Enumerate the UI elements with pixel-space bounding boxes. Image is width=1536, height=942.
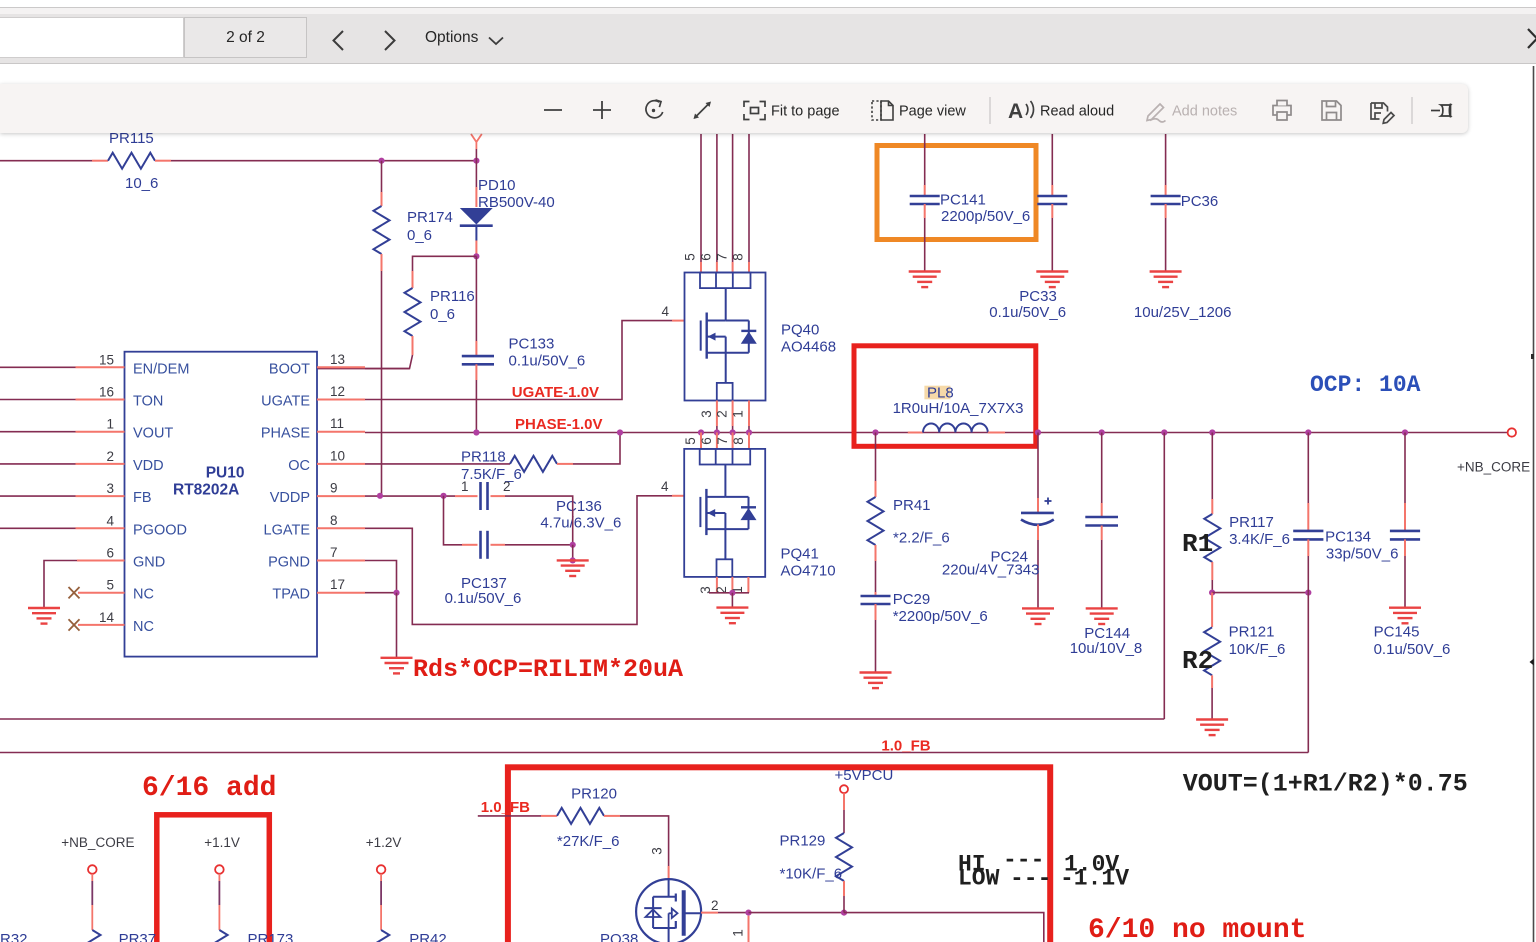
svg-text:*2200p/50V_6: *2200p/50V_6 [893, 608, 988, 625]
ground TPAD [381, 658, 413, 674]
pin stub FB [76, 495, 125, 497]
svg-text:15: 15 [99, 352, 114, 367]
ground PC144 [1086, 608, 1118, 624]
svg-text:R32: R32 [0, 931, 28, 942]
wire R1-R2 row [1212, 592, 1308, 594]
svg-text:1: 1 [731, 929, 746, 937]
svg-text:0_6: 0_6 [407, 227, 432, 244]
svg-text:PQ40: PQ40 [781, 322, 819, 339]
pin stub PHASE [317, 431, 365, 433]
capacitor PC36 [1134, 134, 1232, 321]
svg-text:0.1u/50V_6: 0.1u/50V_6 [989, 304, 1066, 321]
svg-text:PC33: PC33 [1019, 288, 1057, 305]
fit to width button [694, 102, 712, 120]
pin stub PQ41 2 bottom [731, 577, 733, 593]
svg-text:6/16 add: 6/16 add [142, 773, 276, 804]
junction PC136/PC137 [570, 542, 576, 548]
wire junction to ground [396, 593, 398, 658]
pin stub PQ40 1 bottom [748, 401, 750, 427]
pin stub GND 6 [77, 560, 125, 562]
svg-text:PR118: PR118 [461, 449, 506, 466]
transistor PQ40 AO4468 package [685, 273, 766, 401]
svg-text:-1.1V: -1.1V [1060, 866, 1129, 892]
ground PC24 [1022, 608, 1054, 624]
svg-text:6: 6 [699, 253, 714, 261]
svg-text:1: 1 [461, 479, 469, 494]
pin stub TON [76, 399, 125, 401]
no-connect X pin 14 [69, 619, 80, 630]
svg-text:NC: NC [133, 619, 154, 635]
svg-text:Fit to page: Fit to page [771, 104, 840, 120]
power terminal +1.1V [204, 835, 240, 942]
save button [1322, 101, 1341, 120]
junction PR118/PHASE [617, 429, 623, 435]
svg-text:OCP: 10A: OCP: 10A [1310, 372, 1421, 398]
svg-text:17: 17 [330, 577, 345, 592]
svg-text:10K/F_6: 10K/F_6 [1229, 641, 1286, 658]
wire to ground [731, 593, 733, 608]
wire PHASE to PR41 [875, 433, 877, 482]
pin stub PQ41 1 bottom [747, 577, 749, 593]
resistor PR120 [541, 786, 620, 851]
wire LGATE pin 8 to PQ41 gate [365, 496, 672, 625]
svg-text:9: 9 [330, 481, 338, 496]
svg-text:8: 8 [330, 513, 338, 528]
wire PR115 to PD10 junction [171, 160, 476, 162]
options label [425, 29, 478, 47]
pin stub VDDP [317, 495, 365, 497]
ground PC145 [1389, 608, 1421, 624]
pin stub PQ41 8 top [748, 433, 750, 449]
svg-text:LGATE: LGATE [264, 522, 311, 538]
svg-text:UGATE-1.0V: UGATE-1.0V [512, 384, 599, 401]
svg-text:GND: GND [133, 555, 165, 571]
svg-text:4: 4 [106, 513, 114, 528]
wire junction to PR116 branch [413, 256, 477, 271]
fit to page button [744, 102, 765, 120]
svg-text:TON: TON [133, 394, 163, 410]
svg-text:RB500V-40: RB500V-40 [478, 194, 555, 211]
svg-text:PC141: PC141 [940, 192, 986, 209]
wire PR116 to BOOT pin 13 [317, 355, 413, 369]
svg-text:2: 2 [715, 410, 730, 418]
svg-text:7: 7 [715, 437, 730, 445]
svg-text:1: 1 [106, 417, 114, 432]
junction PQ40/PQ41 pins on PHASE [714, 429, 720, 435]
capacitor PC134 [1293, 433, 1398, 593]
svg-text:0_6: 0_6 [430, 306, 455, 323]
search input box [0, 17, 184, 58]
capacitor PC33 [989, 134, 1067, 321]
ground PC136/PC137 [557, 560, 589, 576]
inductor PL8 [893, 385, 1024, 433]
wire to right corner [844, 913, 1044, 942]
wire PD10 junction to PC133 [475, 256, 477, 341]
wire horizontal net y=719 [0, 718, 1164, 720]
svg-text:Read aloud: Read aloud [1040, 104, 1114, 120]
svg-text:10u/10V_8: 10u/10V_8 [1070, 640, 1143, 657]
pin stub PQ41 5 top [700, 433, 702, 449]
svg-text:3.4K/F_6: 3.4K/F_6 [1229, 531, 1290, 548]
svg-text:VDDP: VDDP [270, 490, 310, 506]
capacitor PC24 electrolytic [942, 433, 1054, 609]
terminal +NB_CORE [1508, 428, 1516, 436]
wire fork to junction [475, 149, 477, 161]
pin stub PQ40 2 bottom [732, 401, 734, 427]
svg-text:2200p/50V_6: 2200p/50V_6 [941, 208, 1030, 225]
junction PR174 bottom on VDDP [377, 493, 383, 499]
svg-text:AO4710: AO4710 [781, 563, 836, 580]
collapse chevron right edge [1528, 29, 1536, 48]
svg-text:PR37: PR37 [119, 931, 157, 942]
ground PC29 [860, 673, 892, 689]
capacitor PC145 [1374, 433, 1451, 659]
junction PQ40/PQ41 pins on PHASE [746, 429, 752, 435]
svg-text:VOUT=(1+R1/R2)*0.75: VOUT=(1+R1/R2)*0.75 [1183, 770, 1468, 799]
svg-text:PQ38: PQ38 [600, 931, 638, 942]
print button [1273, 101, 1291, 121]
pin stub PQ41 7 top [732, 433, 734, 449]
page border arrow [1530, 659, 1534, 666]
wire feedback horizontal 1.0_FB [0, 752, 1308, 754]
wire 1.0_FB to PR120 [478, 815, 541, 817]
resistor PR116 [405, 271, 475, 355]
junction PR117 top [1209, 429, 1215, 435]
highlight red box around PQ38 circuit [508, 767, 1050, 942]
svg-text:PC29: PC29 [893, 591, 931, 608]
junction PC133/PHASE [473, 429, 479, 435]
transistor PQ38 MOSFET [636, 879, 701, 942]
pin stub PQ38 2 [701, 912, 718, 914]
page border notch top [1531, 354, 1534, 359]
svg-text:3: 3 [699, 410, 714, 418]
next page button [385, 31, 395, 50]
svg-text:5: 5 [683, 253, 698, 261]
transistor PQ41 AO4710 package [684, 449, 765, 577]
wire OC pin 10 to PR118 [365, 463, 510, 465]
pin stub NC 5 [78, 592, 125, 594]
svg-text:2: 2 [503, 479, 511, 494]
wire pin 4 PGOOD left net [0, 527, 76, 529]
pin stub PGOOD [76, 527, 125, 529]
svg-text:8: 8 [731, 437, 746, 445]
svg-text:11: 11 [330, 416, 344, 431]
pin stub PQ40 7 [732, 262, 734, 273]
svg-text:0.1u/50V_6: 0.1u/50V_6 [509, 353, 586, 370]
junction PQ40/PQ41 pins on PHASE [730, 429, 736, 435]
pin stub PGND [317, 560, 365, 562]
wire GND pin 6 to ground [44, 561, 77, 609]
wire PQ40 pin 5 top [700, 134, 702, 262]
resistor PR115 [92, 130, 171, 192]
svg-text:PGOOD: PGOOD [133, 522, 187, 538]
junction PQ38 pin1 [745, 910, 751, 916]
svg-text:3: 3 [106, 481, 114, 496]
junction PR174 top [378, 158, 384, 164]
capacitor PC133 [462, 336, 585, 381]
svg-text:10: 10 [330, 448, 345, 463]
svg-text:7: 7 [715, 253, 730, 261]
wire PQ40 bottom pins to PHASE [716, 426, 718, 433]
junction PGND/TPAD [393, 590, 399, 596]
svg-text:*27K/F_6: *27K/F_6 [557, 833, 620, 850]
svg-text:PR42: PR42 [409, 931, 447, 942]
junction PC24 top [1035, 429, 1041, 435]
pin stub EN/DEM [76, 366, 125, 368]
wire PQ40 pin 8 top [748, 134, 750, 262]
junction PC145 top [1402, 429, 1408, 435]
svg-text:PC36: PC36 [1181, 193, 1219, 210]
svg-text:VOUT: VOUT [133, 426, 173, 442]
wire PQ41 source pins joined [709, 592, 749, 594]
svg-text:+1.1V: +1.1V [204, 835, 240, 850]
svg-text:PU10: PU10 [206, 465, 245, 482]
svg-text:2: 2 [711, 898, 719, 913]
power terminal +1.2V [366, 835, 402, 942]
svg-text:+5VPCU: +5VPCU [835, 767, 894, 784]
pin stub PQ38 gate [668, 866, 670, 880]
pin stub TPAD [317, 592, 365, 594]
options caret [489, 38, 503, 45]
svg-text:220u/4V_7343: 220u/4V_7343 [942, 562, 1040, 579]
svg-text:PC133: PC133 [509, 336, 555, 353]
svg-text:BOOT: BOOT [269, 361, 310, 377]
wire PGND pin 7 [365, 561, 397, 593]
pin stub UGATE [317, 399, 365, 401]
svg-text:EN/DEM: EN/DEM [133, 361, 189, 377]
junction PQ41 pin5 on PHASE [698, 429, 704, 435]
off-page connector red fork above PD10 [471, 134, 482, 149]
junction PQ41 source [729, 590, 735, 596]
svg-text:13: 13 [330, 352, 345, 367]
wire PR118 to PHASE [573, 433, 620, 464]
wire pin 15 EN/DEM left net [0, 366, 76, 368]
svg-text:PC134: PC134 [1325, 529, 1371, 546]
svg-text:---: --- [1010, 866, 1051, 892]
ground PQ41 source [716, 608, 748, 624]
svg-text:PC145: PC145 [1374, 624, 1420, 641]
wire PC136 pin2 to ground branch [505, 496, 573, 545]
svg-text:PC136: PC136 [556, 498, 602, 515]
svg-text:PL8: PL8 [927, 385, 954, 402]
ground PC36 [1150, 272, 1182, 288]
svg-text:PR129: PR129 [780, 833, 826, 850]
svg-text:PR116: PR116 [430, 288, 475, 305]
highlight red box around +1.1V column [157, 815, 269, 942]
svg-text:5: 5 [683, 437, 698, 445]
pin stub VOUT [76, 431, 125, 433]
wire pin 3 FB left net [0, 495, 76, 497]
pin stub PQ41 gate [672, 495, 684, 497]
pin stub NC 14 [78, 624, 125, 626]
capacitor PC137 [445, 531, 522, 607]
svg-text:TPAD: TPAD [272, 587, 310, 603]
wire PR120 to PQ38 gate [620, 816, 669, 866]
svg-text:10_6: 10_6 [125, 175, 158, 192]
svg-text:Add notes: Add notes [1172, 104, 1237, 120]
diode PD10 [460, 161, 555, 254]
power terminal +5VPCU [835, 767, 894, 793]
svg-text:6: 6 [699, 437, 714, 445]
svg-text:PR117: PR117 [1229, 514, 1274, 531]
svg-text:6/10 no mount: 6/10 no mount [1088, 915, 1306, 942]
wire junction to PR174 [381, 161, 383, 192]
pin stub OC [317, 463, 365, 465]
resistor PR41 [868, 481, 950, 561]
wire PHASE net pin 11 [365, 432, 1508, 434]
highlight orange box around PC141 [877, 146, 1036, 240]
svg-text:PD10: PD10 [478, 177, 516, 194]
pin stub PQ40 5 [700, 262, 702, 273]
wire pin 1 VOUT left net [0, 431, 76, 433]
power terminal +NB_CORE [61, 835, 134, 942]
pin stub PQ40 8 [748, 262, 750, 273]
wire PQ40 pin 6 top [716, 134, 718, 262]
svg-text:PR41: PR41 [893, 497, 931, 514]
svg-text:PHASE: PHASE [261, 426, 310, 442]
separator [1411, 97, 1413, 124]
pin stub PQ41 3 bottom [716, 577, 718, 593]
svg-text:4: 4 [661, 304, 669, 319]
resistor PR174 [374, 192, 453, 271]
wire BOOT pin 13 [365, 368, 410, 370]
page indicator 2 of 2 [184, 17, 307, 58]
wire PC133 to PHASE net [475, 380, 477, 433]
previous page button [0, 0, 1536, 63]
wire top net left of PR115 [0, 160, 92, 162]
wire pin 2 VDD left net [0, 463, 76, 465]
no-connect X pin 5 [69, 587, 80, 598]
svg-text:4: 4 [661, 479, 669, 494]
svg-text:PR173: PR173 [248, 931, 294, 942]
junction sense net [1161, 429, 1167, 435]
svg-text:Rds*OCP=RILIM*20uA: Rds*OCP=RILIM*20uA [413, 655, 683, 684]
svg-text:8: 8 [731, 253, 746, 261]
pin stub PQ38 1 down [748, 916, 750, 942]
pin stub PQ40 gate [672, 320, 685, 322]
wire to PR129 bottom [749, 912, 845, 914]
pin stub BOOT [317, 366, 365, 368]
svg-text:7: 7 [330, 545, 338, 560]
resistor PR129 [780, 793, 853, 912]
svg-text:10u/25V_1206: 10u/25V_1206 [1134, 304, 1232, 321]
zoom in button [593, 101, 611, 119]
svg-text:1: 1 [731, 410, 746, 418]
svg-text:PR174: PR174 [407, 209, 453, 226]
highlight red box around PL8 [854, 346, 1036, 447]
wire junction to ground [572, 545, 574, 561]
wire PQ38 drain net [718, 912, 749, 914]
junction PC134 bottom [1305, 590, 1311, 596]
svg-text:OC: OC [288, 458, 310, 474]
svg-text:14: 14 [99, 610, 115, 625]
pin stub LGATE [317, 527, 365, 529]
pin stub PQ40 6 [716, 262, 718, 273]
svg-text:R1: R1 [1182, 529, 1213, 559]
wire UGATE pin 12 to PQ40 gate [365, 321, 672, 400]
svg-text:0.1u/50V_6: 0.1u/50V_6 [445, 590, 522, 607]
junction PR41 top [872, 429, 878, 435]
svg-text:33p/50V_6: 33p/50V_6 [1326, 546, 1399, 563]
pin tab button [1431, 104, 1451, 118]
svg-text:R2: R2 [1182, 646, 1213, 676]
svg-text:LOW: LOW [958, 866, 1000, 892]
svg-text:NC: NC [133, 587, 154, 603]
svg-text:RT8202A: RT8202A [173, 482, 239, 499]
capacitor PC136 [455, 479, 621, 532]
svg-text:+1.2V: +1.2V [366, 835, 402, 850]
wire sense vertical [1163, 433, 1165, 720]
svg-text:1.0_FB: 1.0_FB [881, 738, 930, 755]
resistor PR118 [461, 449, 573, 484]
resistor PR121 R2 [1204, 593, 1285, 720]
rotate button [646, 100, 663, 118]
svg-text:2: 2 [106, 449, 114, 464]
capacitor PC29 [861, 591, 988, 673]
svg-text:*2.2/F_6: *2.2/F_6 [893, 530, 950, 547]
svg-text:PQ41: PQ41 [781, 546, 819, 563]
ground at GND pin 6 [28, 608, 60, 624]
save as button [1371, 103, 1394, 123]
add notes button [1147, 104, 1166, 122]
wire feedback from R1/R2 junction [1307, 593, 1309, 753]
junction PD10 bottom [473, 253, 479, 259]
svg-text:FB: FB [133, 490, 152, 506]
svg-text:+NB_CORE: +NB_CORE [1457, 460, 1530, 475]
browser find bar background [0, 7, 1536, 15]
wire PR174 bottom to VDDP row [381, 271, 383, 496]
junction PC144 top [1099, 429, 1105, 435]
svg-text:1.0_FB: 1.0_FB [481, 799, 530, 816]
wire VDDP pin 9 [365, 495, 455, 497]
svg-text:PGND: PGND [268, 555, 310, 571]
svg-text:4.7u/6.3V_6: 4.7u/6.3V_6 [540, 515, 621, 532]
wire pin 16 TON left net [0, 399, 76, 401]
svg-text:1R0uH/10A_7X7X3: 1R0uH/10A_7X7X3 [893, 400, 1024, 417]
read aloud button [1008, 100, 1034, 123]
capacitor PC141 [910, 134, 1031, 272]
page right border line [1533, 66, 1535, 942]
page view button [872, 101, 893, 120]
svg-text:+NB_CORE: +NB_CORE [61, 835, 134, 850]
svg-text:A: A [1008, 100, 1023, 123]
wire PQ40 pin 7 top [732, 134, 734, 262]
svg-text:6: 6 [106, 546, 114, 561]
svg-text:AO4468: AO4468 [781, 339, 836, 356]
svg-text:3: 3 [650, 847, 665, 855]
junction at ground top [570, 557, 576, 563]
wire PHASE to PR117 [1211, 433, 1213, 500]
svg-text:PR121: PR121 [1229, 624, 1275, 641]
wire PC137 to junction [505, 544, 573, 546]
resistor PR117 R1 [1204, 499, 1290, 593]
wire TPAD pin 17 [365, 592, 397, 594]
pin stub VDD [76, 463, 125, 465]
junction VDDP split [440, 493, 446, 499]
pin stub PQ40 3 bottom [716, 401, 718, 427]
junction PR129 bottom [841, 910, 847, 916]
svg-text:Page view: Page view [899, 104, 966, 120]
IC PU10 RT8202A body [125, 352, 318, 657]
svg-text:PR120: PR120 [571, 786, 617, 803]
svg-text:PHASE-1.0V: PHASE-1.0V [515, 416, 603, 433]
zoom out button [544, 109, 562, 111]
svg-text:12: 12 [330, 384, 345, 399]
svg-text:7.5K/F_6: 7.5K/F_6 [461, 466, 522, 483]
wire PR41 to PC29 [875, 561, 877, 592]
svg-text:16: 16 [99, 385, 114, 400]
junction R1/R2 [1209, 590, 1215, 596]
